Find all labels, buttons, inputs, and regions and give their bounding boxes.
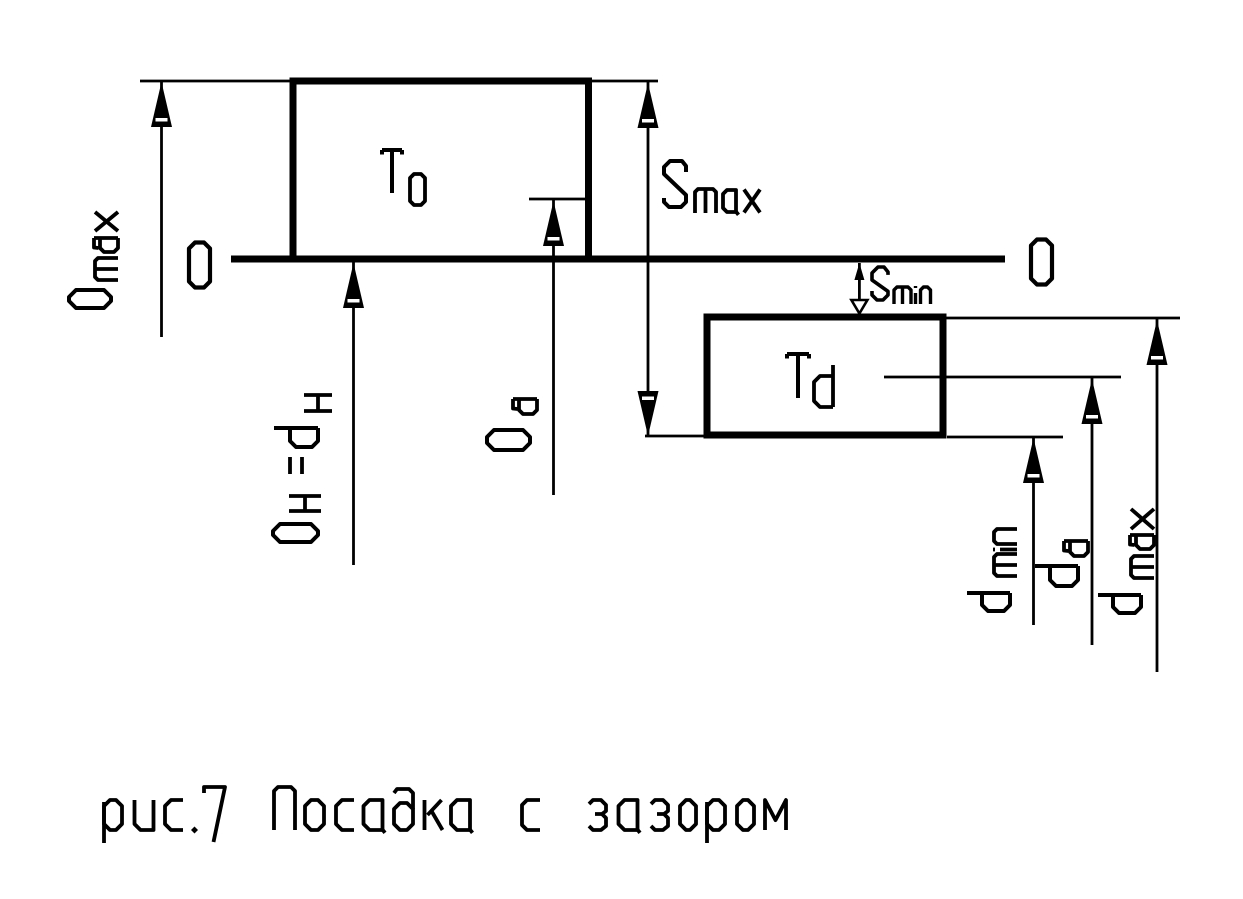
label 0 (right) <box>1031 240 1052 285</box>
label dmin (rotated) <box>967 529 1017 611</box>
arrowhead dmax <box>1147 320 1168 365</box>
dimension line dmin (shaft) <box>1032 438 1035 625</box>
extension line dmax (from Td top-right) <box>943 317 1180 320</box>
extension line dmin (from Td bottom-right) <box>947 436 1063 439</box>
tolerance zone TD (hole) rectangle <box>293 81 589 259</box>
dimension Smin (double arrow) <box>858 263 861 313</box>
extension line at Smax top (top right) <box>588 80 658 83</box>
extension line da (middle) <box>884 376 1121 379</box>
dimension line Smax (shaft) <box>647 82 650 435</box>
dimension line Dmax (shaft) <box>160 81 163 337</box>
label da (rotated) <box>1035 541 1088 586</box>
extension line at Smax bottom <box>645 435 707 438</box>
label DH=dH (rotated) <box>273 395 332 542</box>
label Smax <box>664 161 760 215</box>
extension line at Dmax level (top left) <box>140 80 293 83</box>
label dmax (rotated) <box>1098 509 1154 613</box>
dimension line DH=dH (shaft) <box>352 262 355 565</box>
label Td inside shaft zone <box>787 354 833 407</box>
label Da (rotated) <box>487 399 537 450</box>
arrowhead da <box>1082 379 1103 424</box>
arrowhead Da <box>543 201 564 246</box>
dimension line dmax (shaft) <box>1156 319 1159 672</box>
arrowhead Smax top <box>638 83 659 128</box>
dimension line da (shaft) <box>1091 378 1094 645</box>
arrowhead Dmax <box>151 82 172 127</box>
label 0 (left) <box>189 243 210 288</box>
zero line 0-0 <box>231 256 1005 263</box>
arrowhead Smax bottom <box>638 391 659 436</box>
caption: puc.7 Посадка с зазором <box>104 787 786 843</box>
dimension line Da (shaft) <box>552 200 555 495</box>
extension line for Da (inside TD) <box>529 198 588 201</box>
arrowhead dmin <box>1023 438 1044 483</box>
arrowhead DH <box>343 263 364 308</box>
label Smin <box>872 267 931 304</box>
label Dmax (rotated) <box>69 212 118 308</box>
tolerance zone Td (shaft) rectangle <box>707 317 943 435</box>
label TD inside hole zone <box>382 150 425 205</box>
